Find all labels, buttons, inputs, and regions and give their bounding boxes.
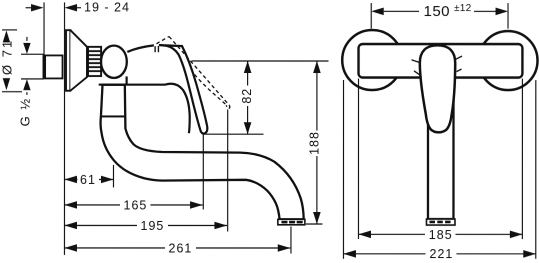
spout downtube (front) (428, 100, 454, 219)
aerator (front view) (426, 219, 455, 225)
handle (front) (420, 45, 455, 132)
svg-text:165: 165 (123, 199, 147, 213)
spout tube (101, 85, 304, 219)
valve body (99, 84, 190, 134)
dimension 195 (64, 109, 227, 233)
wire wall face line (63, 2, 65, 254)
dimension 82 (191, 61, 328, 134)
svg-text:±12: ±12 (454, 3, 472, 14)
dimension 188 (306, 61, 323, 224)
handle swivel ticks (412, 56, 463, 75)
knurled nut (88, 47, 101, 76)
lever handle (159, 45, 207, 133)
svg-text:261: 261 (168, 241, 192, 255)
svg-text:82: 82 (240, 88, 254, 104)
dimension 261 (64, 226, 291, 255)
escutcheon flange base (66, 30, 70, 91)
flange circle left (342, 30, 402, 90)
wire wall line left (43, 2, 45, 55)
aerator (side view) (278, 219, 305, 225)
dimension Ø71 (0, 30, 22, 92)
svg-text:Ø 71: Ø 71 (0, 39, 14, 75)
svg-text:195: 195 (140, 219, 164, 233)
svg-text:188: 188 (307, 131, 321, 155)
spout joint line (101, 115, 125, 117)
dimension G1/2 (18, 37, 44, 127)
dimension 61 (64, 165, 113, 188)
dimension 185 (358, 79, 522, 242)
svg-text:61: 61 (80, 173, 96, 187)
svg-text:G ½: G ½ (18, 97, 33, 126)
dimension 150 +-12 (371, 3, 508, 29)
svg-text:185: 185 (429, 228, 453, 242)
dashed raised-handle outline (156, 36, 229, 108)
dimension 221 (343, 80, 535, 261)
svg-text:221: 221 (429, 247, 453, 261)
svg-text:19 - 24: 19 - 24 (84, 1, 130, 15)
dimension 19-24 (26, 1, 130, 15)
dimension 165 (64, 133, 203, 213)
svg-text:150: 150 (424, 3, 451, 20)
escutcheon cone (70, 30, 87, 91)
flange circle right (479, 31, 538, 90)
body bar (359, 44, 523, 78)
G1/2 nipple (43, 55, 63, 78)
ball joint (101, 46, 127, 78)
handle pivot notch (155, 46, 158, 52)
